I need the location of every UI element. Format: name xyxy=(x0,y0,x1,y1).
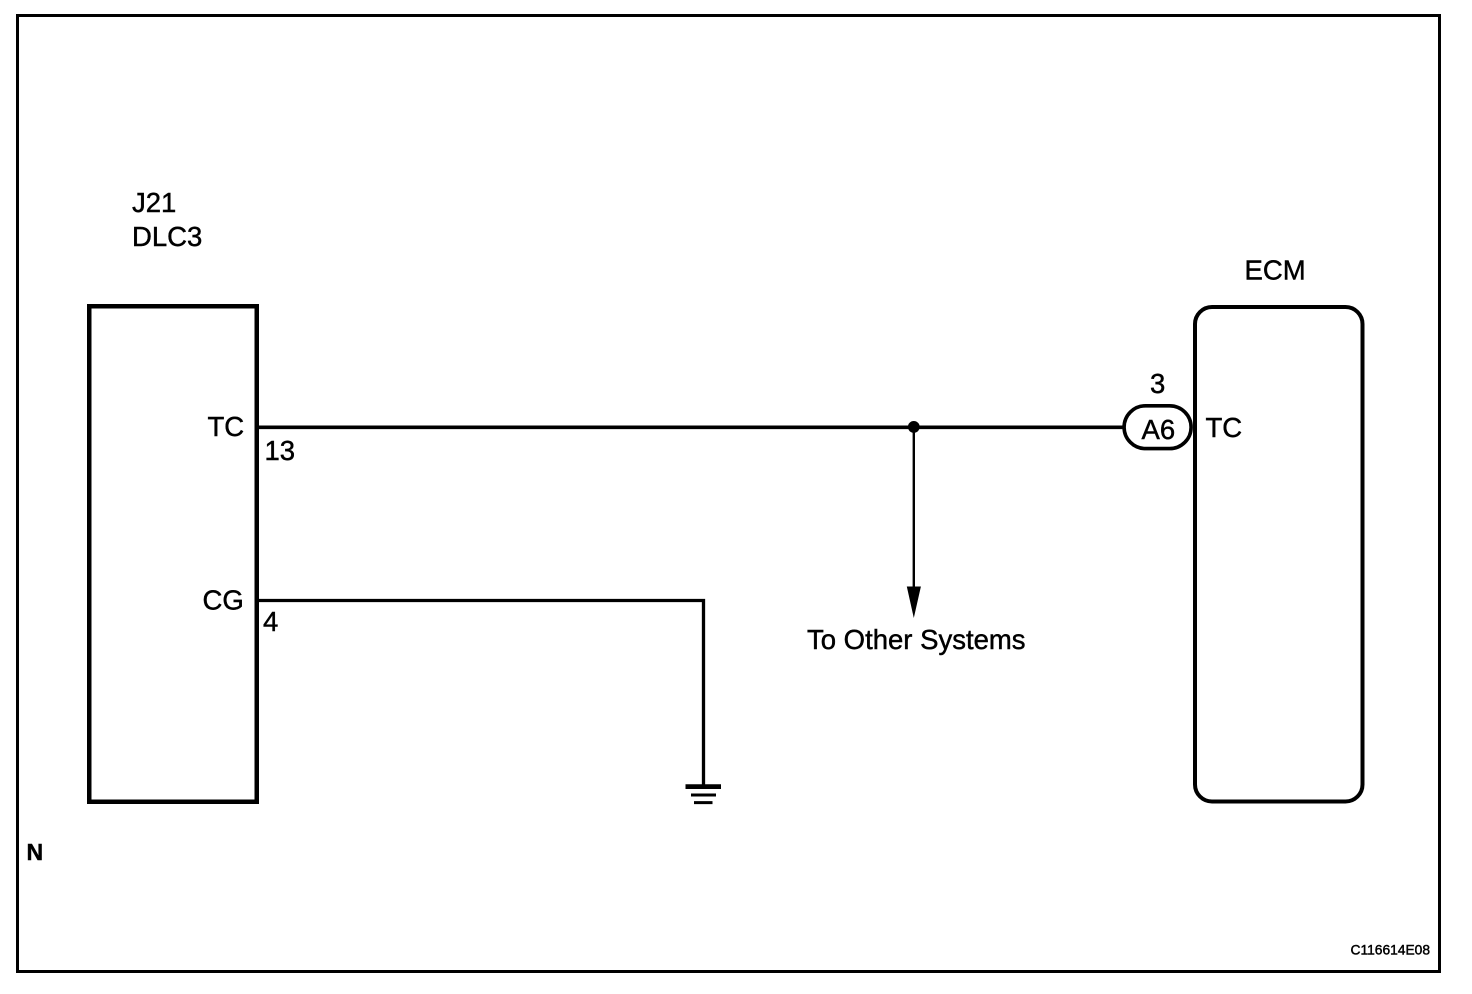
svg-text:A6: A6 xyxy=(1142,414,1176,445)
svg-text:CG: CG xyxy=(203,585,244,616)
svg-text:13: 13 xyxy=(265,435,296,466)
svg-text:J21: J21 xyxy=(132,187,176,218)
svg-text:ECM: ECM xyxy=(1245,254,1306,285)
svg-text:DLC3: DLC3 xyxy=(132,221,202,252)
svg-text:3: 3 xyxy=(1150,368,1165,399)
svg-text:C116614E08: C116614E08 xyxy=(1351,942,1431,957)
svg-text:TC: TC xyxy=(1206,412,1243,443)
svg-text:TC: TC xyxy=(208,411,245,442)
svg-text:To Other Systems: To Other Systems xyxy=(807,624,1026,655)
svg-text:4: 4 xyxy=(263,606,278,637)
svg-text:N: N xyxy=(27,839,44,865)
